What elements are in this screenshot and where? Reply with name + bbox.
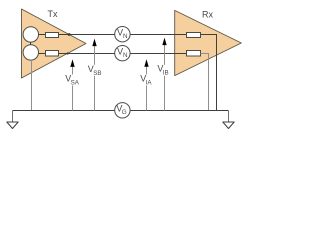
source circle A — [23, 27, 38, 42]
arrow VIA shaft — [146, 66, 148, 110]
arrow VSB shaft — [94, 46, 96, 111]
svg-text:IB: IB — [163, 70, 169, 77]
label VIB — [157, 65, 170, 76]
ground source VG — [115, 103, 130, 118]
label VSB — [87, 65, 101, 76]
ground symbol right — [228, 111, 230, 123]
junction dot on Tx bottom edge — [67, 52, 69, 54]
resistor Tx bottom — [46, 51, 59, 57]
svg-text:SB: SB — [93, 70, 101, 77]
svg-text:N: N — [123, 52, 128, 59]
arrow VIB head — [162, 38, 166, 46]
wire: connector between source circles — [30, 42, 32, 45]
arrow VIA head — [144, 59, 148, 67]
wire: source A circle to resistor A — [38, 34, 45, 36]
junction dot on Tx top edge — [68, 33, 71, 36]
wire: top signal VN to Rx — [130, 34, 186, 36]
ground symbol left — [12, 111, 14, 123]
resistor Rx top — [187, 33, 201, 38]
svg-text:SA: SA — [71, 80, 80, 87]
ground rail — [13, 110, 115, 112]
noise source VN top — [115, 27, 130, 42]
svg-text:Rx: Rx — [202, 10, 213, 20]
wire: resistor A to triangle edge junction — [59, 34, 70, 36]
wire: Rx top resistor right, turn down to rail — [200, 35, 216, 111]
arrow VSA shaft — [72, 67, 74, 111]
svg-text:Tx: Tx — [48, 9, 58, 19]
noise source VN bottom — [115, 46, 130, 61]
Rx amplifier triangle — [175, 10, 242, 75]
wire: top signal Tx to VN — [69, 34, 115, 36]
source circle B — [23, 45, 38, 60]
resistor Rx bottom — [187, 51, 201, 57]
wire: resistor B to triangle edge — [59, 53, 68, 55]
label VIA — [140, 75, 153, 86]
svg-text:N: N — [123, 33, 128, 40]
resistor Tx top — [46, 33, 59, 38]
arrow VIB shaft — [164, 45, 166, 111]
svg-text:IA: IA — [146, 80, 153, 87]
Tx amplifier triangle — [22, 9, 87, 78]
label VSA — [64, 75, 78, 86]
wire: source B circle to resistor B — [38, 53, 45, 55]
arrow VSB head — [92, 39, 96, 47]
wire: bottom signal VN to Rx — [130, 53, 186, 55]
arrow VSA head — [70, 59, 74, 67]
wire: bottom signal Tx to VN — [68, 53, 115, 55]
svg-text:G: G — [122, 109, 127, 116]
wire: circle B down to ground rail — [31, 60, 33, 110]
wire: Rx bottom resistor right, turn down to rail — [200, 54, 208, 111]
